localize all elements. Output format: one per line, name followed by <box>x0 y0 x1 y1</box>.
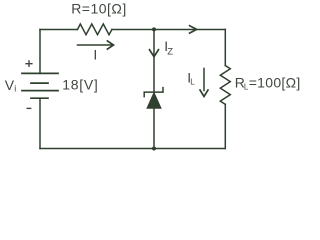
svg-text:=100[Ω]: =100[Ω] <box>249 75 301 91</box>
svg-text:R=10[Ω]: R=10[Ω] <box>71 1 127 17</box>
svg-text:V: V <box>5 77 15 93</box>
svg-text:I: I <box>93 47 97 63</box>
svg-text:L: L <box>190 78 195 87</box>
svg-text:Z: Z <box>167 47 173 58</box>
svg-text:i: i <box>14 84 16 94</box>
svg-text:18[V]: 18[V] <box>62 77 98 93</box>
